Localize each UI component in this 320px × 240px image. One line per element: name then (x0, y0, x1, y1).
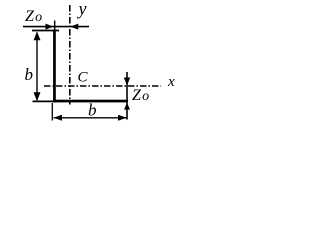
arrowhead pointing left at y axis x=70 (70, 24, 78, 30)
arrowhead pointing up at leg bottom face y=103 (124, 103, 130, 110)
horizontal leg wall of angle section (53, 100, 128, 103)
arrowhead up at top (34, 32, 41, 41)
svg-text:Zo: Zo (25, 8, 42, 25)
arrowhead pointing down at x axis y=86 (124, 78, 130, 86)
extension line bottom left for b (x=52.3) (51, 103, 53, 121)
dimension line Zo top (23, 26, 89, 28)
extension line / top cap of vertical leg (y=30.5) (32, 30, 59, 32)
svg-text:Zo: Zo (132, 87, 149, 104)
dimension line b (left, vertical) (36, 33, 38, 101)
arrowhead pointing right at leg face x=54 (46, 24, 54, 30)
svg-text:x: x (167, 74, 175, 90)
svg-text:b: b (25, 65, 34, 84)
dimension line b (bottom, horizontal) (54, 117, 127, 119)
extension line at top of leg (x=54.7) (54, 21, 56, 32)
arrowhead right (118, 115, 127, 121)
y axis (vertical dash-dot centroidal axis) (69, 5, 71, 105)
svg-text:y: y (77, 0, 87, 19)
arrowhead left (54, 115, 63, 121)
arrowhead down at bottom (34, 92, 41, 101)
vertical leg wall of angle section (53, 30, 56, 103)
x axis (horizontal dash-dot centroidal axis) (44, 85, 161, 87)
svg-text:b: b (88, 101, 97, 120)
dimension line Zo right (vertical) (126, 72, 128, 120)
bottom extension line for b (left) (33, 100, 54, 102)
svg-text:C: C (78, 70, 89, 86)
